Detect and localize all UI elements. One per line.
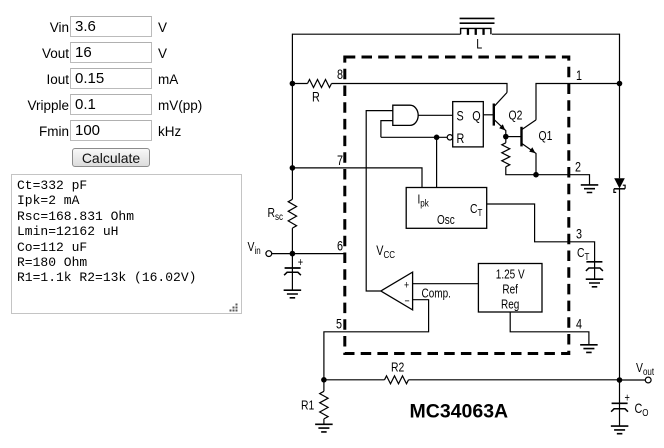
input row Vripple — [0, 98, 69, 113]
node pin7 / left rail junction — [290, 165, 296, 171]
svg-text:R: R — [312, 89, 320, 104]
svg-text:CT: CT — [470, 202, 483, 218]
svg-text:Ref: Ref — [502, 284, 518, 297]
svg-text:L: L — [476, 36, 482, 51]
resistor R2 — [385, 376, 409, 384]
wire pin 8 — [292, 84, 507, 93]
ground pin 4 — [580, 345, 598, 353]
transistor Q2 — [494, 93, 507, 137]
svg-text:Osc: Osc — [437, 214, 455, 227]
svg-text:+: + — [404, 280, 409, 292]
wire junction to Osc block — [436, 137, 438, 187]
svg-text:Comp.: Comp. — [422, 288, 451, 301]
svg-text:Q2: Q2 — [509, 108, 523, 122]
wire top rail right — [492, 33, 620, 35]
wire comparator output to AND upper input — [366, 111, 393, 291]
capacitor input filter — [284, 254, 303, 291]
terminal Vout — [620, 377, 652, 383]
op-amp comparator — [381, 272, 413, 310]
wire pin 4 — [510, 312, 589, 345]
svg-text:CT: CT — [577, 246, 590, 262]
ground pin 2 — [581, 185, 599, 193]
button Calculate — [72, 148, 150, 168]
svg-text:CO: CO — [635, 401, 649, 418]
svg-text:4: 4 — [576, 316, 582, 331]
svg-text:S: S — [457, 108, 464, 123]
node pin6 / left rail junction — [290, 251, 296, 257]
diode D1 Schottky — [614, 178, 625, 192]
svg-text:Rsc: Rsc — [268, 206, 284, 222]
wire pin 7 — [292, 168, 422, 188]
svg-text:3: 3 — [576, 226, 582, 241]
block 1.25V Ref Reg — [478, 264, 542, 313]
wire ref to comparator plus input — [413, 283, 479, 285]
input row Vout — [0, 46, 69, 61]
node pin1 / right rail junction — [617, 81, 623, 87]
IC boundary MC34063A dashed box — [345, 57, 569, 354]
node Q1 emitter junction — [533, 172, 539, 178]
wire AND lower input — [381, 121, 393, 138]
wire AND output to latch S — [418, 114, 452, 116]
svg-text:1: 1 — [576, 68, 582, 83]
wire comparator minus input to pin 5 — [324, 300, 429, 380]
svg-text:Vin: Vin — [248, 240, 261, 256]
node pin8 / left rail junction — [290, 81, 296, 87]
resistor R — [308, 80, 332, 88]
wire bottom feedback — [324, 379, 620, 381]
svg-text:R: R — [457, 131, 465, 146]
wire top rail left — [292, 33, 460, 35]
svg-text:MC34063A: MC34063A — [410, 401, 509, 423]
svg-text:Ipk: Ipk — [418, 194, 430, 209]
inductor L — [460, 18, 495, 34]
svg-text:Vout: Vout — [636, 361, 654, 377]
node Vout junction — [617, 377, 623, 383]
resistor Rsc — [288, 199, 296, 228]
input row Iout — [0, 72, 69, 87]
node feedback junction — [321, 377, 327, 383]
svg-text:+: + — [625, 393, 630, 405]
terminal Vin — [266, 251, 272, 257]
block Ipk Osc — [406, 188, 487, 229]
svg-text:+: + — [298, 257, 303, 269]
wire right rail lower — [619, 189, 621, 380]
svg-text:Q: Q — [472, 108, 480, 123]
ground R1 — [315, 424, 333, 432]
latch U2 (S-R) — [447, 102, 483, 147]
wire pin 2 — [506, 137, 590, 185]
capacitor CT — [586, 262, 603, 271]
wire pin 3 CT — [487, 204, 595, 279]
textarea results — [11, 174, 242, 314]
wire latch R input — [381, 136, 447, 138]
svg-text:5: 5 — [336, 316, 342, 331]
ground Co — [611, 426, 629, 434]
svg-text:8: 8 — [337, 67, 343, 82]
input row Fmin — [0, 124, 69, 139]
wire pin 1 — [536, 84, 620, 120]
input row Vin — [0, 20, 69, 35]
capacitor Co — [611, 380, 630, 426]
resistor R1 — [320, 380, 328, 425]
and-gate U1 — [393, 105, 418, 125]
svg-text:Reg: Reg — [501, 299, 519, 312]
resistor Q2 emitter — [502, 143, 510, 167]
transistor Q1 — [522, 120, 537, 175]
ground input cap — [284, 290, 302, 298]
ground CT — [586, 279, 604, 287]
svg-text:Q1: Q1 — [539, 129, 553, 143]
svg-text:R1: R1 — [301, 398, 314, 412]
svg-text:2: 2 — [575, 159, 581, 174]
svg-text:6: 6 — [337, 238, 343, 253]
wire Q output to Q2 base — [483, 114, 494, 116]
svg-text:7: 7 — [337, 153, 343, 168]
node A Q2 emitter / Q1 base — [503, 134, 509, 140]
wire pin 6 — [272, 253, 345, 255]
wire right rail upper — [619, 34, 621, 179]
textarea resize grip — [228, 302, 240, 314]
wire left rail — [291, 34, 293, 254]
wire node A to Q1 base — [506, 136, 522, 138]
svg-text:−: − — [405, 296, 410, 308]
svg-text:1.25 V: 1.25 V — [496, 269, 525, 282]
node R-input / osc junction — [434, 135, 440, 141]
svg-text:VCC: VCC — [376, 243, 395, 260]
svg-text:R2: R2 — [391, 360, 404, 374]
